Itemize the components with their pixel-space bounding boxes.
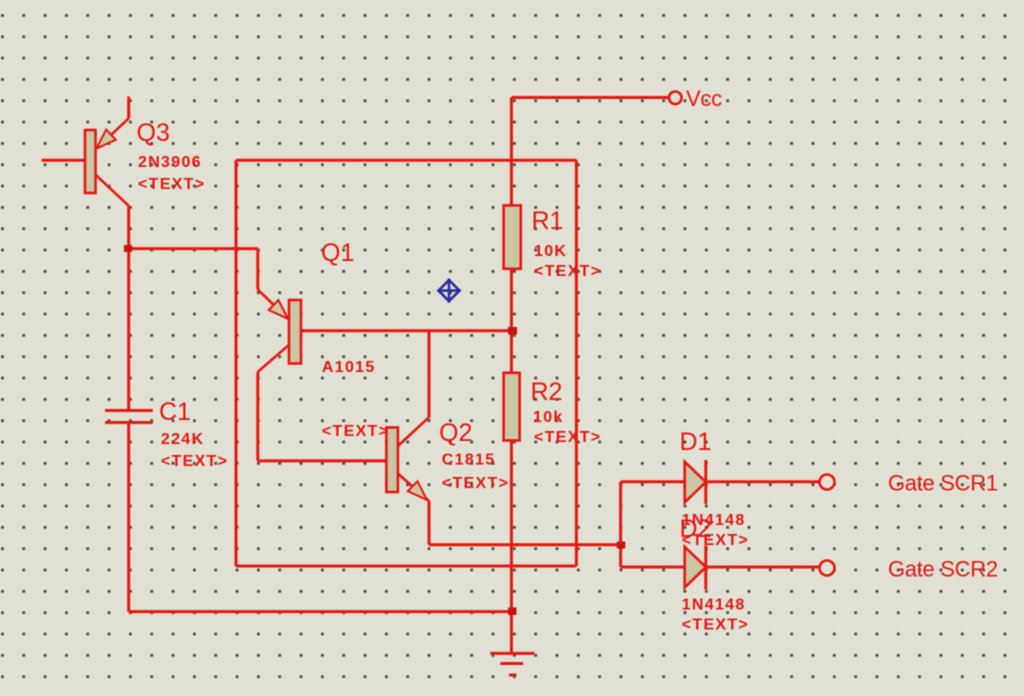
svg-text:2N3906: 2N3906 <box>138 154 202 171</box>
diode D1 cathode bar <box>704 460 707 504</box>
wire Q1 base horizontal <box>301 329 511 332</box>
svg-text:Q2: Q2 <box>439 419 472 447</box>
svg-text:Q3: Q3 <box>137 119 170 147</box>
svg-text:<TEXT>: <TEXT> <box>534 429 601 446</box>
svg-text:A1015: A1015 <box>322 359 376 376</box>
svg-text:Q1: Q1 <box>321 239 354 267</box>
Gate SCR2 terminal circle <box>820 561 835 576</box>
ground <box>490 653 534 675</box>
svg-text:R2: R2 <box>531 378 563 406</box>
resistor R2 body <box>504 373 520 441</box>
diode D2 cathode bar <box>704 546 707 590</box>
wire D2 cathode <box>706 566 820 569</box>
transistor Q1 body <box>289 300 301 364</box>
wire Q3 base <box>42 159 86 162</box>
svg-text:<TEXT>: <TEXT> <box>534 263 601 280</box>
wire box bottom <box>236 565 576 568</box>
wire Q2 base horizontal <box>258 459 387 462</box>
Vcc terminal circle <box>669 92 682 105</box>
origin marker (blue) <box>437 279 460 303</box>
svg-text:C1: C1 <box>159 398 191 426</box>
wire Q2 emitter horizontal <box>429 543 621 546</box>
wire Q1 emitter vertical <box>256 249 259 290</box>
svg-text:<TEXT>: <TEXT> <box>682 617 749 634</box>
resistor R1 body <box>504 205 521 268</box>
svg-text:1N4148: 1N4148 <box>682 597 746 614</box>
capacitor C1 plates <box>105 411 153 423</box>
svg-text:Vcc: Vcc <box>686 86 722 111</box>
transistor Q2 emitter arrow <box>408 481 427 500</box>
svg-text:10K: 10K <box>534 243 567 260</box>
wire D2 anode <box>621 566 685 569</box>
transistor Q2 body <box>386 428 398 493</box>
svg-text:R1: R1 <box>532 207 564 235</box>
diode D1 body <box>685 462 706 503</box>
junction at ground wire <box>508 608 517 616</box>
wire C1 bottom lead <box>127 423 130 612</box>
wire Q1 collector vertical <box>256 372 259 461</box>
svg-text:10k: 10k <box>533 409 564 426</box>
svg-text:D1: D1 <box>680 428 712 456</box>
wire R1 top vertical <box>510 98 513 206</box>
svg-text:Gate SCR2: Gate SCR2 <box>888 557 998 582</box>
svg-text:224K: 224K <box>161 431 204 448</box>
wire D1 anode <box>621 480 685 483</box>
wire bottom horizontal to ground node <box>129 610 512 613</box>
wire box left <box>235 160 238 566</box>
wire Q2 collector diagonal <box>398 417 429 446</box>
wire Q1 collector diagonal <box>258 346 288 372</box>
transistor Q1 emitter arrow <box>269 300 288 319</box>
wire R1 R2 vertical <box>510 269 513 373</box>
wire Q2 emitter diagonal <box>398 474 429 502</box>
svg-text:<TEXT>: <TEXT> <box>138 176 205 193</box>
svg-text:1N4148: 1N4148 <box>682 512 746 529</box>
wire D1 cathode <box>706 480 820 483</box>
svg-text:C1815: C1815 <box>442 452 496 469</box>
wire Q2 emitter vertical <box>428 501 431 545</box>
svg-text:<TEXT>: <TEXT> <box>682 532 749 549</box>
wire Q3 emitter top <box>127 97 130 119</box>
wire box top <box>236 159 576 162</box>
svg-text:<TEXT>: <TEXT> <box>442 475 509 492</box>
wire diode bus vertical <box>619 482 622 567</box>
wire Q1 emitter diagonal <box>258 290 288 319</box>
transistor Q3 emitter arrow <box>97 130 116 149</box>
svg-text:<TEXT>: <TEXT> <box>161 453 228 470</box>
Gate SCR1 terminal circle <box>820 475 835 490</box>
wire Q3 collector to C1 <box>127 206 130 410</box>
wire box right <box>575 160 578 566</box>
transistor Q3 body <box>85 130 96 193</box>
diode D2 body <box>685 547 706 588</box>
wire Q1 emitter horizontal <box>129 247 258 250</box>
junction at diode bus <box>617 542 626 549</box>
junction at R1 R2 / Q1 base <box>508 327 517 335</box>
wire Vcc horizontal <box>511 96 669 99</box>
wire Q2 collector vertical <box>428 331 431 418</box>
svg-text:<TEXT>: <TEXT> <box>322 423 389 440</box>
svg-text:Gate SCR1: Gate SCR1 <box>888 471 998 496</box>
wire Q3 collector diagonal <box>95 175 128 206</box>
junction at Q3 collector / Q1 emitter <box>124 245 132 252</box>
wire R2 bottom vertical <box>510 441 513 654</box>
wire Q3 emitter diagonal <box>97 118 129 148</box>
